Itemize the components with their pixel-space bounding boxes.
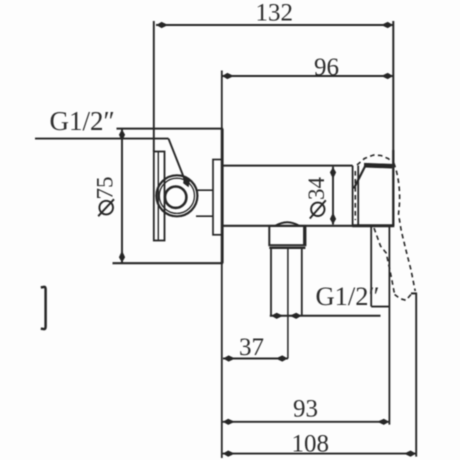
svg-text:37: 37 — [239, 334, 264, 361]
svg-text:96: 96 — [314, 54, 339, 81]
svg-text:34: 34 — [304, 177, 329, 201]
svg-text:G1/2″: G1/2″ — [50, 106, 115, 136]
svg-text:132: 132 — [256, 0, 294, 27]
svg-text:108: 108 — [292, 431, 330, 458]
svg-text:93: 93 — [293, 396, 318, 423]
svg-text:75: 75 — [92, 177, 117, 200]
svg-text:G1/2″: G1/2″ — [316, 281, 380, 311]
